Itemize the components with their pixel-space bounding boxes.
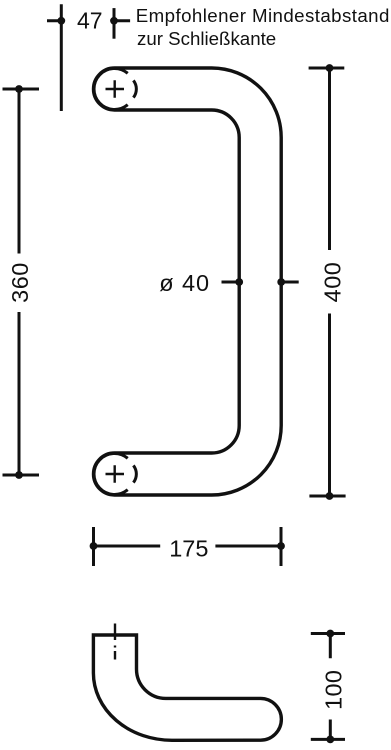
dimension 100 <box>311 630 345 744</box>
side view outline <box>93 635 281 740</box>
dimension 360 <box>3 85 40 479</box>
svg-text:360: 360 <box>7 262 33 303</box>
svg-text:zur Schließkante: zur Schließkante <box>137 28 276 49</box>
bottom rosette right arc ")" <box>133 465 136 482</box>
side view centerline <box>114 624 116 660</box>
top center cross <box>106 80 125 97</box>
handle top end cap arc <box>94 68 115 110</box>
svg-text:400: 400 <box>319 262 345 303</box>
dimension 175 <box>90 527 285 566</box>
top rosette right arc ")" <box>133 80 136 97</box>
handle front view outer outline <box>115 68 282 495</box>
svg-text:47: 47 <box>77 8 103 34</box>
svg-text:100: 100 <box>321 670 347 710</box>
dimension 400 <box>309 64 346 500</box>
diameter 40 leader <box>222 278 299 286</box>
svg-text:175: 175 <box>169 536 208 562</box>
top rosette circle with gaps <box>94 68 128 109</box>
handle bottom end cap arc <box>94 453 115 495</box>
bottom center cross <box>106 465 125 482</box>
bottom rosette circle with gaps <box>94 453 128 494</box>
dimension 47 <box>47 4 130 111</box>
handle front view inner outline <box>115 110 240 453</box>
svg-text:Empfohlener Mindestabstand: Empfohlener Mindestabstand <box>136 5 390 26</box>
svg-text:ø 40: ø 40 <box>159 270 210 296</box>
